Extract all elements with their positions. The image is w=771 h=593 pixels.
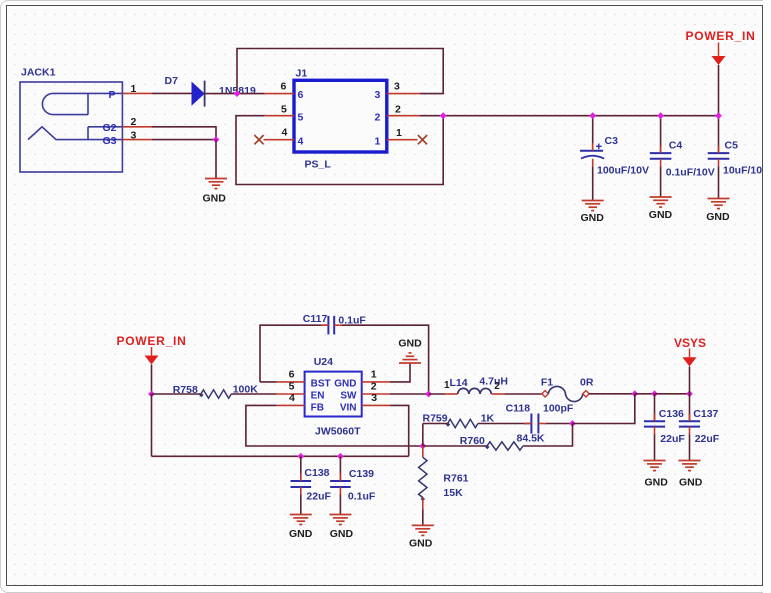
svg-text:5: 5 (281, 104, 287, 116)
svg-text:L14: L14 (450, 377, 468, 389)
capacitor C4 (650, 146, 672, 167)
svg-text:2: 2 (494, 381, 500, 392)
svg-text:6: 6 (289, 368, 295, 380)
wire VSYS drop (689, 367, 691, 394)
U24 pin number 6 (289, 368, 295, 380)
VSYS node junction (686, 390, 693, 397)
svg-text:G2: G2 (103, 122, 117, 134)
value 22uF C138 (306, 490, 331, 502)
svg-text:R758: R758 (173, 384, 198, 396)
connector J1 body (294, 80, 387, 152)
svg-text:SW: SW (340, 390, 357, 401)
svg-text:15K: 15K (443, 487, 463, 499)
bus junction at J1 pin2 (440, 112, 447, 119)
ground C136 (644, 461, 666, 471)
svg-text:3: 3 (375, 89, 381, 101)
gnd node junction (213, 136, 220, 143)
label GND U24 (398, 338, 422, 350)
svg-text:1: 1 (371, 368, 377, 380)
wire BST row (260, 381, 277, 383)
wire to C136 plates (654, 394, 656, 421)
svg-text:C3: C3 (605, 135, 619, 147)
value PS_L (305, 159, 332, 171)
wire POWER_IN drop (718, 65, 720, 116)
svg-text:C5: C5 (725, 140, 739, 152)
resistor R760 (485, 442, 523, 450)
U24 pin number 2 (371, 381, 377, 393)
J1 pin number 1 (396, 127, 402, 139)
value 100K (233, 383, 259, 395)
op-amp U24 body (305, 372, 362, 417)
label GND C139 (330, 528, 354, 540)
resistor R759 (446, 419, 478, 427)
J1 inside pin number 4 (298, 135, 304, 147)
designator C137 (693, 408, 718, 420)
svg-text:1K: 1K (481, 412, 495, 424)
inductor L14 (458, 388, 492, 394)
power symbol VSYS (683, 349, 697, 367)
net label POWER_IN bottom (117, 334, 187, 348)
svg-text:22uF: 22uF (695, 433, 720, 445)
J1 pin number 4 (282, 127, 288, 139)
svg-text:VSYS: VSYS (674, 336, 706, 350)
U24 pin name FB (311, 402, 324, 413)
wire pin1 to gnd (390, 363, 410, 382)
J1 pin 5 stub (264, 115, 294, 117)
svg-text:C118: C118 (506, 402, 531, 414)
capacitor C5 (708, 146, 730, 167)
svg-text:GND: GND (581, 212, 605, 224)
net label POWER_IN top (686, 29, 756, 43)
svg-text:R759: R759 (423, 412, 448, 424)
wire bus POWER_IN (420, 115, 719, 117)
diode D7 (192, 81, 205, 107)
svg-text:4: 4 (282, 127, 288, 139)
value 10uF/10V (723, 165, 769, 177)
value 0R (580, 376, 594, 388)
U24 pin number 1 (371, 368, 377, 380)
fuse F1 (542, 386, 589, 401)
designator C5 (725, 140, 739, 152)
U24 pin number 3 (371, 392, 377, 404)
wire POWER_IN to rail (151, 394, 153, 456)
svg-text:1: 1 (375, 135, 381, 147)
svg-text:1: 1 (396, 127, 402, 139)
svg-text:C138: C138 (304, 467, 329, 479)
J1 inside pin number 3 (375, 89, 381, 101)
wire FB loop (246, 405, 423, 446)
value 100uF/10V (597, 165, 649, 177)
designator C136 (659, 408, 684, 420)
J1 inside pin number 1 (375, 135, 381, 147)
wire loop pin2 to pin5 (236, 116, 443, 185)
svg-text:100pF: 100pF (543, 402, 574, 414)
J1 pin number 3 (394, 81, 400, 93)
C4 bus junction (657, 112, 664, 119)
J1 pin 4 stub (264, 139, 295, 141)
value 22uF C137 (695, 433, 720, 445)
J1 pin number 6 (281, 81, 287, 93)
svg-text:BST: BST (311, 378, 331, 389)
U24 pin name VIN (340, 402, 357, 413)
svg-text:22uF: 22uF (306, 490, 331, 502)
svg-text:2: 2 (371, 381, 377, 393)
U24 pin number 4 (289, 392, 295, 404)
svg-text:5: 5 (289, 381, 295, 393)
svg-text:GND: GND (645, 477, 669, 489)
R761 top lead (422, 446, 424, 457)
svg-text:D7: D7 (165, 75, 179, 87)
capacitor C117 (321, 316, 342, 335)
svg-text:JW5060T: JW5060T (315, 426, 361, 438)
svg-text:GND: GND (679, 477, 703, 489)
designator C117 (303, 313, 328, 325)
POWER_IN node junction (148, 391, 155, 398)
wire C4 to gnd (660, 166, 662, 197)
SW node junction (425, 391, 432, 398)
wire fb top corner (423, 423, 448, 425)
svg-text:GND: GND (330, 528, 354, 540)
svg-text:6: 6 (281, 81, 287, 93)
designator C139 (349, 468, 374, 480)
svg-text:F1: F1 (541, 376, 553, 388)
svg-text:22uF: 22uF (660, 433, 685, 445)
U24 pin 1 stub (362, 381, 390, 383)
capacitor C137 (679, 414, 700, 434)
C138 rail junction (297, 453, 304, 460)
svg-text:GND: GND (398, 338, 422, 350)
wire C136 to VSYS node (655, 393, 690, 395)
label GND C3 (581, 212, 605, 224)
wire BST to C117 (260, 325, 328, 382)
wire VIN drop (390, 405, 409, 456)
wire fb node to R760 (423, 445, 487, 447)
label GND C5 (706, 211, 730, 223)
C3 bus junction (589, 112, 596, 119)
svg-text:4: 4 (298, 135, 304, 147)
wire rail to C139 (339, 456, 341, 481)
wire jack pin1 to D7 anode (152, 92, 192, 94)
R761 bottom lead (422, 498, 424, 510)
svg-text:R761: R761 (443, 473, 468, 485)
designator D7 (165, 75, 179, 87)
JACK1 barrel pin symbol (42, 93, 122, 114)
J1 pin 1 stub (387, 139, 418, 141)
U24 pin 4 stub (277, 404, 305, 406)
JACK1 switch contact symbol (28, 127, 122, 140)
designator C138 (304, 467, 329, 479)
L14 pin2 lead (491, 393, 505, 395)
wire fb column up (422, 424, 424, 447)
net label VSYS (674, 336, 706, 350)
wire gnd node down (215, 140, 217, 179)
svg-text:J1: J1 (296, 68, 308, 80)
resistor R761 (419, 457, 427, 501)
U24 pin 5 stub (277, 393, 305, 395)
wire SW node to L14 (429, 393, 445, 395)
wire jack pin3 to gnd node (152, 139, 216, 141)
designator R759 (423, 412, 448, 424)
svg-text:GND: GND (289, 528, 313, 540)
ground C3 (582, 201, 604, 211)
R760 top junction (569, 420, 576, 427)
svg-text:C136: C136 (659, 408, 684, 420)
svg-text:3: 3 (371, 392, 377, 404)
U24 pin number 5 (289, 381, 295, 393)
designator L14 (450, 377, 468, 389)
U24 pin 6 stub (277, 381, 305, 383)
svg-text:84.5K: 84.5K (517, 433, 545, 445)
designator R760 (460, 435, 485, 447)
J1 pin 3 stub (387, 93, 420, 95)
wire F1 to output node (589, 393, 635, 395)
svg-text:5: 5 (298, 111, 304, 123)
wire C136 to gnd (654, 434, 656, 460)
J1 pin 2 stub (387, 115, 420, 117)
wire POWER_IN bottom drop (151, 365, 153, 395)
wire to R758 (152, 393, 201, 395)
ground jack (205, 179, 227, 189)
node A junction (234, 90, 241, 97)
wire L14 to F1 (505, 393, 542, 395)
wire C117 to SW node (342, 325, 429, 394)
L14 pin1 lead (445, 393, 458, 395)
svg-text:C139: C139 (349, 468, 374, 480)
value 4.7uH (479, 375, 508, 387)
value 100pF (543, 402, 574, 414)
svg-text:6: 6 (298, 89, 304, 101)
svg-text:C117: C117 (303, 313, 328, 325)
wire output node to C136 (635, 393, 655, 395)
U24 pin 2 stub (362, 393, 390, 395)
U24 pin name EN (311, 390, 325, 401)
power symbol POWER_IN top (712, 43, 726, 66)
svg-text:2: 2 (395, 104, 401, 116)
svg-text:3: 3 (394, 81, 400, 93)
svg-text:0.1uF: 0.1uF (348, 490, 376, 502)
U24 pin name GND (334, 378, 356, 389)
svg-text:100uF/10V: 100uF/10V (597, 165, 649, 177)
J1 inside pin number 6 (298, 89, 304, 101)
J1 pin 6 stub (264, 93, 294, 95)
wire R758 to EN (231, 393, 276, 395)
JACK1 pin number 1 (131, 83, 137, 95)
J1 inside pin number 5 (298, 111, 304, 123)
svg-text:POWER_IN: POWER_IN (117, 334, 187, 348)
svg-text:JACK1: JACK1 (21, 67, 56, 79)
C5 bus junction (715, 112, 722, 119)
designator JACK1 (21, 67, 56, 79)
svg-text:U24: U24 (314, 356, 333, 368)
sheet edge clip (763, 0, 771, 593)
svg-text:VIN: VIN (340, 402, 357, 413)
U24 pin name BST (311, 378, 331, 389)
svg-text:P: P (109, 89, 116, 101)
L14 pin number 1 (444, 380, 450, 391)
capacitor C118 (524, 414, 546, 434)
value 0.1uF/10V (666, 166, 715, 178)
value 0.1uF C139 (348, 490, 376, 502)
svg-text:0.1uF/10V: 0.1uF/10V (666, 166, 715, 178)
output node junction (631, 390, 638, 397)
resistor R758 (199, 390, 231, 398)
label GND C137 (679, 477, 703, 489)
ground C5 (708, 199, 730, 209)
JACK1 pin name G3 (103, 135, 117, 147)
wire C138 to gnd (300, 495, 302, 515)
designator C4 (669, 140, 683, 152)
value 0.1uF C117 (338, 315, 366, 327)
label GND C136 (645, 477, 669, 489)
svg-text:PS_L: PS_L (305, 159, 332, 171)
U24 pin 3 stub (362, 404, 390, 406)
JACK1 pin 3 stub (122, 139, 152, 141)
designator C118 (506, 402, 531, 414)
wire R761 to gnd (422, 510, 424, 526)
JACK1 pin 2 stub (122, 126, 152, 128)
svg-text:0R: 0R (580, 376, 594, 388)
J1 no-connect X pin 4 (254, 135, 263, 144)
value 1N5819 (219, 85, 256, 97)
designator J1 (296, 68, 308, 80)
label GND C4 (649, 209, 673, 221)
ground C139 (329, 515, 351, 525)
svg-text:EN: EN (311, 390, 325, 401)
wire jack pin2 down (152, 127, 216, 140)
wire D7 cathode to node A (205, 93, 264, 95)
J1 no-connect X pin 1 (418, 135, 427, 144)
svg-text:C137: C137 (693, 408, 718, 420)
wire rail to C138 (300, 456, 302, 481)
capacitor C3 (580, 143, 604, 166)
svg-text:R760: R760 (460, 435, 485, 447)
wire bus to C4 (660, 116, 662, 153)
value 84.5K (517, 433, 545, 445)
svg-text:2: 2 (375, 111, 381, 123)
label GND C138 (289, 528, 313, 540)
L14 pin number 2 (494, 381, 500, 392)
value 1K (481, 412, 495, 424)
ground C4 (650, 197, 672, 207)
wire C118 row to output (573, 394, 635, 424)
J1 pin number 5 (281, 104, 287, 116)
JACK1 pin 1 stub (122, 92, 152, 94)
svg-text:POWER_IN: POWER_IN (686, 29, 756, 43)
value 22uF C136 (660, 433, 685, 445)
U24 pin name SW (340, 390, 357, 401)
wire bus to C3 (592, 116, 594, 151)
wire C5 to gnd (718, 166, 720, 198)
ground R761 (412, 525, 434, 535)
JACK1 pin name P (109, 89, 116, 101)
wire input rail (152, 455, 409, 457)
power symbol POWER_IN bottom (145, 347, 159, 365)
capacitor C139 (330, 474, 351, 495)
designator F1 (541, 376, 553, 388)
svg-text:4: 4 (289, 392, 295, 404)
ground U24 inverted (399, 353, 421, 363)
wire R759 to C118 (478, 423, 532, 425)
wire SW to node (390, 393, 429, 395)
wire C137 to gnd (689, 434, 691, 460)
svg-text:G3: G3 (103, 135, 117, 147)
FB node junction (419, 443, 426, 450)
ground C137 (679, 461, 701, 471)
svg-text:GND: GND (409, 538, 433, 550)
svg-text:10uF/10V: 10uF/10V (723, 165, 769, 177)
wire C139 to gnd (339, 495, 341, 515)
capacitor C138 (291, 474, 312, 495)
svg-text:GND: GND (334, 378, 356, 389)
value JW5060T (315, 426, 361, 438)
JACK1 pin name G2 (103, 122, 117, 134)
svg-text:FB: FB (311, 402, 324, 413)
capacitor C136 (644, 414, 665, 434)
designator R758 (173, 384, 198, 396)
J1 inside pin number 2 (375, 111, 381, 123)
JACK1 pin number 2 (131, 116, 137, 128)
designator C3 (605, 135, 619, 147)
svg-text:GND: GND (203, 193, 227, 205)
wire loop pin3 to node A (237, 49, 443, 94)
svg-text:GND: GND (649, 209, 673, 221)
svg-text:C4: C4 (669, 140, 683, 152)
wire to C137 plates (689, 394, 691, 421)
svg-text:GND: GND (706, 211, 730, 223)
wire R760 up (523, 424, 573, 447)
C136 junction (651, 390, 658, 397)
label GND jack (203, 193, 227, 205)
value 15K (443, 487, 463, 499)
wire C118 to R760 node (546, 423, 573, 425)
label GND R761 (409, 538, 433, 550)
designator R761 (443, 473, 468, 485)
C139 rail junction (337, 453, 344, 460)
designator U24 (314, 356, 333, 368)
JACK1 pin number 3 (131, 130, 137, 142)
wire bus to C5 (718, 116, 720, 153)
wire C3 to gnd (592, 166, 594, 200)
ground C138 (290, 515, 312, 525)
J1 pin number 2 (395, 104, 401, 116)
connector JACK1 body (20, 82, 122, 172)
